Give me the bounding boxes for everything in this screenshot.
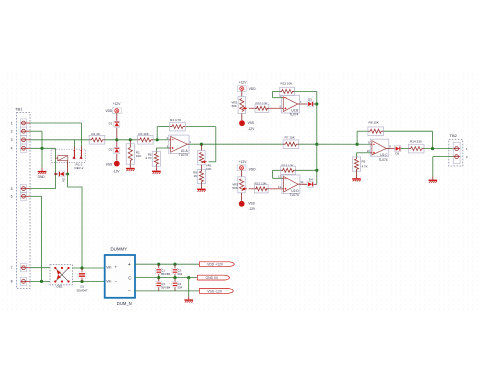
- svg-text:R13 10K: R13 10K: [282, 163, 295, 167]
- wire TB1-6 down: [30, 196, 42, 281]
- node X vertical wire: [316, 91, 318, 184]
- ground (TB1 pin2/pin4): [38, 168, 47, 179]
- net flag VSS -12V: [199, 289, 233, 294]
- wire main line to U1C: [299, 143, 371, 145]
- wire -12V rail: [135, 290, 199, 292]
- net flag VDD +12V: [199, 262, 234, 267]
- wire 0V to ground: [188, 278, 190, 297]
- resistor R13 10K: [281, 163, 296, 174]
- wire DB1- rail to DUM block: [72, 281, 104, 283]
- op-amp U1:D: [278, 175, 304, 197]
- wire U1A + input to R5: [156, 148, 168, 152]
- wire VR2 wiper to R10: [249, 107, 256, 109]
- ground (R5): [152, 166, 161, 173]
- TB2 pin 2 terminal: [453, 155, 468, 159]
- resistor R8 10K: [368, 121, 384, 136]
- wire TB1-8 to DB1: [30, 280, 50, 282]
- wire 0V rail: [135, 277, 198, 279]
- diode D5: [395, 146, 401, 156]
- svg-text:12: 12: [278, 185, 282, 189]
- svg-text:35V/B4: 35V/B4: [161, 272, 171, 276]
- svg-text:R7 10K: R7 10K: [285, 136, 296, 140]
- svg-text:VSS: VSS: [248, 202, 254, 206]
- wire TB2 pin2 to GND: [433, 157, 453, 177]
- resistor R2 10K: [126, 140, 141, 165]
- svg-text:−: −: [128, 289, 131, 295]
- resistor R12 10K: [254, 182, 268, 193]
- TB1 pin 3 terminal: [11, 136, 30, 144]
- svg-text:VDD: VDD: [249, 167, 256, 171]
- pot VR2 50K: [231, 96, 247, 113]
- wire U1D feedback: [273, 170, 282, 178]
- svg-text:+12V: +12V: [239, 160, 247, 164]
- node R8/R14/TB2 junction: [431, 147, 434, 150]
- power +12V VDD (VR2): [237, 81, 256, 97]
- power +12V VDD (VR3): [237, 160, 256, 177]
- resistor R3 10K: [138, 132, 154, 144]
- wire R11 to node X: [295, 90, 317, 92]
- svg-text:VSS: VSS: [248, 121, 254, 125]
- svg-text:R10 10K: R10 10K: [256, 101, 269, 105]
- svg-text:U1:C: U1:C: [380, 153, 388, 157]
- node U1A output / VR1: [200, 143, 203, 146]
- node clamp junction: [115, 138, 118, 141]
- svg-text:35V/B4: 35V/B4: [161, 286, 171, 290]
- connector TB2: [449, 133, 463, 166]
- TB2 pin 1 terminal: [453, 147, 468, 151]
- wire R14 to TB2 pin1: [424, 148, 453, 150]
- wire +12V rail: [135, 263, 199, 265]
- node C5 top junction: [80, 266, 83, 269]
- svg-text:TB1: TB1: [15, 107, 23, 112]
- capacitor C3: [172, 263, 183, 278]
- wire DB1+ rail to DUM block: [72, 267, 104, 269]
- wire R12 to U1D: [268, 188, 282, 190]
- power VSS -12V (VR2): [239, 114, 255, 131]
- svg-text:7: 7: [11, 266, 13, 270]
- resistor R11 10K: [280, 81, 295, 95]
- node R2 junction: [129, 138, 132, 141]
- wire R1 to clamp node: [105, 139, 138, 141]
- wire U1A output: [189, 143, 283, 145]
- svg-text:DEV-2: DEV-2: [75, 166, 84, 170]
- svg-text:4: 4: [11, 147, 13, 151]
- wire R3 to U1A inverting input: [153, 139, 169, 141]
- svg-text:TL074: TL074: [290, 193, 299, 197]
- svg-text:R14 330: R14 330: [410, 140, 422, 144]
- svg-text:+: +: [128, 262, 131, 268]
- node pin2/pin4 junction: [40, 147, 43, 150]
- svg-text:1K: 1K: [193, 174, 197, 178]
- wire TB1-4 to coil node: [30, 147, 56, 149]
- svg-text:2: 2: [11, 130, 13, 134]
- svg-text:5: 5: [11, 187, 13, 191]
- node coil-right / D6 junction: [66, 173, 69, 176]
- wire U1B feedback: [273, 91, 282, 97]
- wire R13 to node X: [296, 169, 317, 171]
- pot VR3 50K: [232, 177, 247, 193]
- wire R8 to output node: [384, 131, 433, 148]
- svg-text:D6: D6: [62, 178, 66, 182]
- svg-text:6: 6: [11, 195, 13, 199]
- node main/R8 junction: [356, 143, 359, 146]
- node C5 bottom junction: [80, 280, 83, 283]
- svg-text:14: 14: [300, 180, 304, 184]
- svg-text:TL074: TL074: [378, 158, 387, 162]
- resistor R10 10K: [255, 101, 269, 112]
- resistor R1 2K: [89, 132, 105, 144]
- wire U1C output to D5: [389, 148, 395, 150]
- TB1 pin 6 terminal: [11, 192, 30, 200]
- svg-text:TL074: TL074: [179, 153, 188, 157]
- svg-text:35V/047: 35V/047: [76, 288, 88, 292]
- wire relay coil to rectifier rail: [68, 174, 82, 268]
- wire feedback up: [157, 127, 169, 140]
- svg-text:+12V: +12V: [113, 102, 121, 106]
- svg-text:VDD: VDD: [105, 109, 112, 113]
- node X / R13 junction: [315, 169, 318, 172]
- wire TB1-7 to DB1: [30, 267, 50, 269]
- node pin6/pin8 junction: [40, 280, 43, 283]
- ground (R2): [126, 165, 135, 171]
- svg-text:R11 10K: R11 10K: [281, 81, 294, 85]
- svg-text:GND: GND: [38, 175, 46, 179]
- svg-text:+: +: [114, 265, 117, 270]
- capacitor C1: [155, 263, 170, 278]
- svg-text:D5: D5: [395, 151, 399, 155]
- bridge rectifier DB1: [50, 265, 72, 289]
- svg-text:8: 8: [11, 280, 13, 284]
- wire TB1-3 input line to R1: [30, 139, 90, 141]
- svg-text:DUM_N: DUM_N: [117, 301, 132, 306]
- TB1 pin 5 terminal: [11, 185, 30, 193]
- TB1 pin 8 terminal: [11, 277, 30, 285]
- ground (R9): [352, 171, 361, 181]
- wire R8 feedback: [357, 131, 368, 144]
- power VSS -12V (VR3): [239, 193, 256, 211]
- svg-text:VDD: VDD: [249, 87, 256, 91]
- power +12V VDD (input clamp): [105, 102, 121, 120]
- wire R4 to VR1 wiper: [186, 127, 216, 162]
- svg-text:−: −: [114, 278, 117, 283]
- TB1 pin 1 terminal: [11, 119, 30, 127]
- svg-text:+12V: +12V: [239, 81, 247, 85]
- wire TB1-5: [30, 188, 56, 190]
- wire VR3 wiper to R12: [249, 188, 254, 190]
- op-amp U1:A: [167, 135, 192, 157]
- ground (R6): [197, 184, 206, 192]
- svg-text:D2: D2: [109, 148, 113, 152]
- svg-text:R9: R9: [362, 160, 366, 164]
- resistor R6 1K: [193, 165, 205, 184]
- diode D1: [109, 121, 120, 140]
- svg-text:4.7K: 4.7K: [145, 156, 151, 160]
- node 0V/GND junction: [158, 276, 191, 279]
- wire U1C + input to R9: [357, 153, 371, 157]
- node coil-left / D6 junction: [54, 173, 56, 175]
- wire D4 to node X: [313, 183, 317, 185]
- wire R10 to U1B: [269, 107, 282, 109]
- pot VR1 10K: [198, 144, 212, 171]
- diode D2: [109, 140, 120, 161]
- svg-text:10K: 10K: [136, 154, 141, 158]
- connector TB1: [15, 107, 30, 289]
- svg-text:D1: D1: [109, 121, 113, 125]
- resistor R7 10K: [283, 136, 299, 149]
- wire D5 to R14: [401, 148, 409, 150]
- node X / D3 junction: [315, 102, 318, 105]
- svg-text:-12V: -12V: [248, 207, 256, 211]
- svg-text:D4: D4: [309, 178, 313, 182]
- svg-text:VDD +12V: VDD +12V: [207, 263, 224, 267]
- svg-text:4.7K: 4.7K: [362, 164, 368, 168]
- resistor R4 4.7K: [170, 118, 186, 131]
- svg-text:TL074: TL074: [289, 113, 298, 117]
- svg-text:-12V: -12V: [248, 127, 256, 131]
- svg-text:1: 1: [11, 121, 13, 125]
- power VSS -12V (input clamp): [106, 161, 121, 174]
- svg-text:GND 0V: GND 0V: [206, 276, 219, 280]
- resistor R14 330: [408, 140, 424, 153]
- svg-text:DUMMY: DUMMY: [111, 247, 128, 252]
- wire relay contact 1 up to input line: [74, 140, 76, 150]
- ground (0V rail): [184, 296, 193, 302]
- svg-text:50K: 50K: [232, 186, 237, 190]
- TB1 pin 2 terminal: [11, 127, 30, 135]
- resistor R5 4.7K: [145, 152, 160, 167]
- net flag GND 0V: [198, 275, 230, 280]
- relay RL1 DEV-2: [51, 149, 85, 174]
- op-amp U1:C: [367, 139, 392, 162]
- svg-text:D3: D3: [308, 97, 312, 101]
- svg-text:3: 3: [11, 138, 13, 142]
- svg-text:VSS: VSS: [106, 162, 112, 166]
- wire coil-left vertical (pin4/pin5): [55, 148, 57, 188]
- TB1 pin 4 terminal: [11, 144, 30, 152]
- wire TB1-1 to relay contact 2: [30, 123, 82, 150]
- svg-text:R4 4.7K: R4 4.7K: [170, 118, 182, 122]
- svg-text:R8 10K: R8 10K: [369, 121, 380, 125]
- wire U1B output to D3: [300, 103, 308, 105]
- diode D4: [307, 178, 313, 188]
- svg-text:50K: 50K: [232, 104, 237, 108]
- svg-text:104: 104: [177, 272, 182, 276]
- node X / main line junction: [315, 143, 318, 146]
- svg-text:10K: 10K: [206, 167, 211, 171]
- svg-text:DB1: DB1: [57, 285, 63, 289]
- diode D3: [307, 97, 313, 107]
- capacitor C2: [155, 276, 170, 291]
- svg-text:VSS -12V: VSS -12V: [207, 289, 223, 293]
- node R3/R4 junction: [156, 138, 159, 141]
- op-amp U1:B: [279, 94, 301, 117]
- svg-text:Vin: Vin: [106, 279, 111, 283]
- wire TB1-2 to GND: [30, 131, 42, 168]
- svg-text:Vin: Vin: [106, 266, 111, 270]
- ground (TB2): [429, 176, 438, 182]
- diode D6: [56, 171, 68, 182]
- svg-text:104: 104: [177, 286, 182, 290]
- svg-text:-12V: -12V: [113, 169, 121, 173]
- resistor R9 4.7K: [352, 157, 367, 171]
- wire U1D output to D4: [300, 183, 308, 185]
- capacitor C5: [76, 268, 88, 292]
- power module DUM_N (DUMMY): [105, 247, 135, 306]
- TB1 pin 7 terminal: [11, 264, 30, 272]
- capacitor C4: [172, 276, 183, 291]
- svg-text:TB2: TB2: [450, 133, 458, 138]
- wire D3 to node X: [313, 103, 317, 105]
